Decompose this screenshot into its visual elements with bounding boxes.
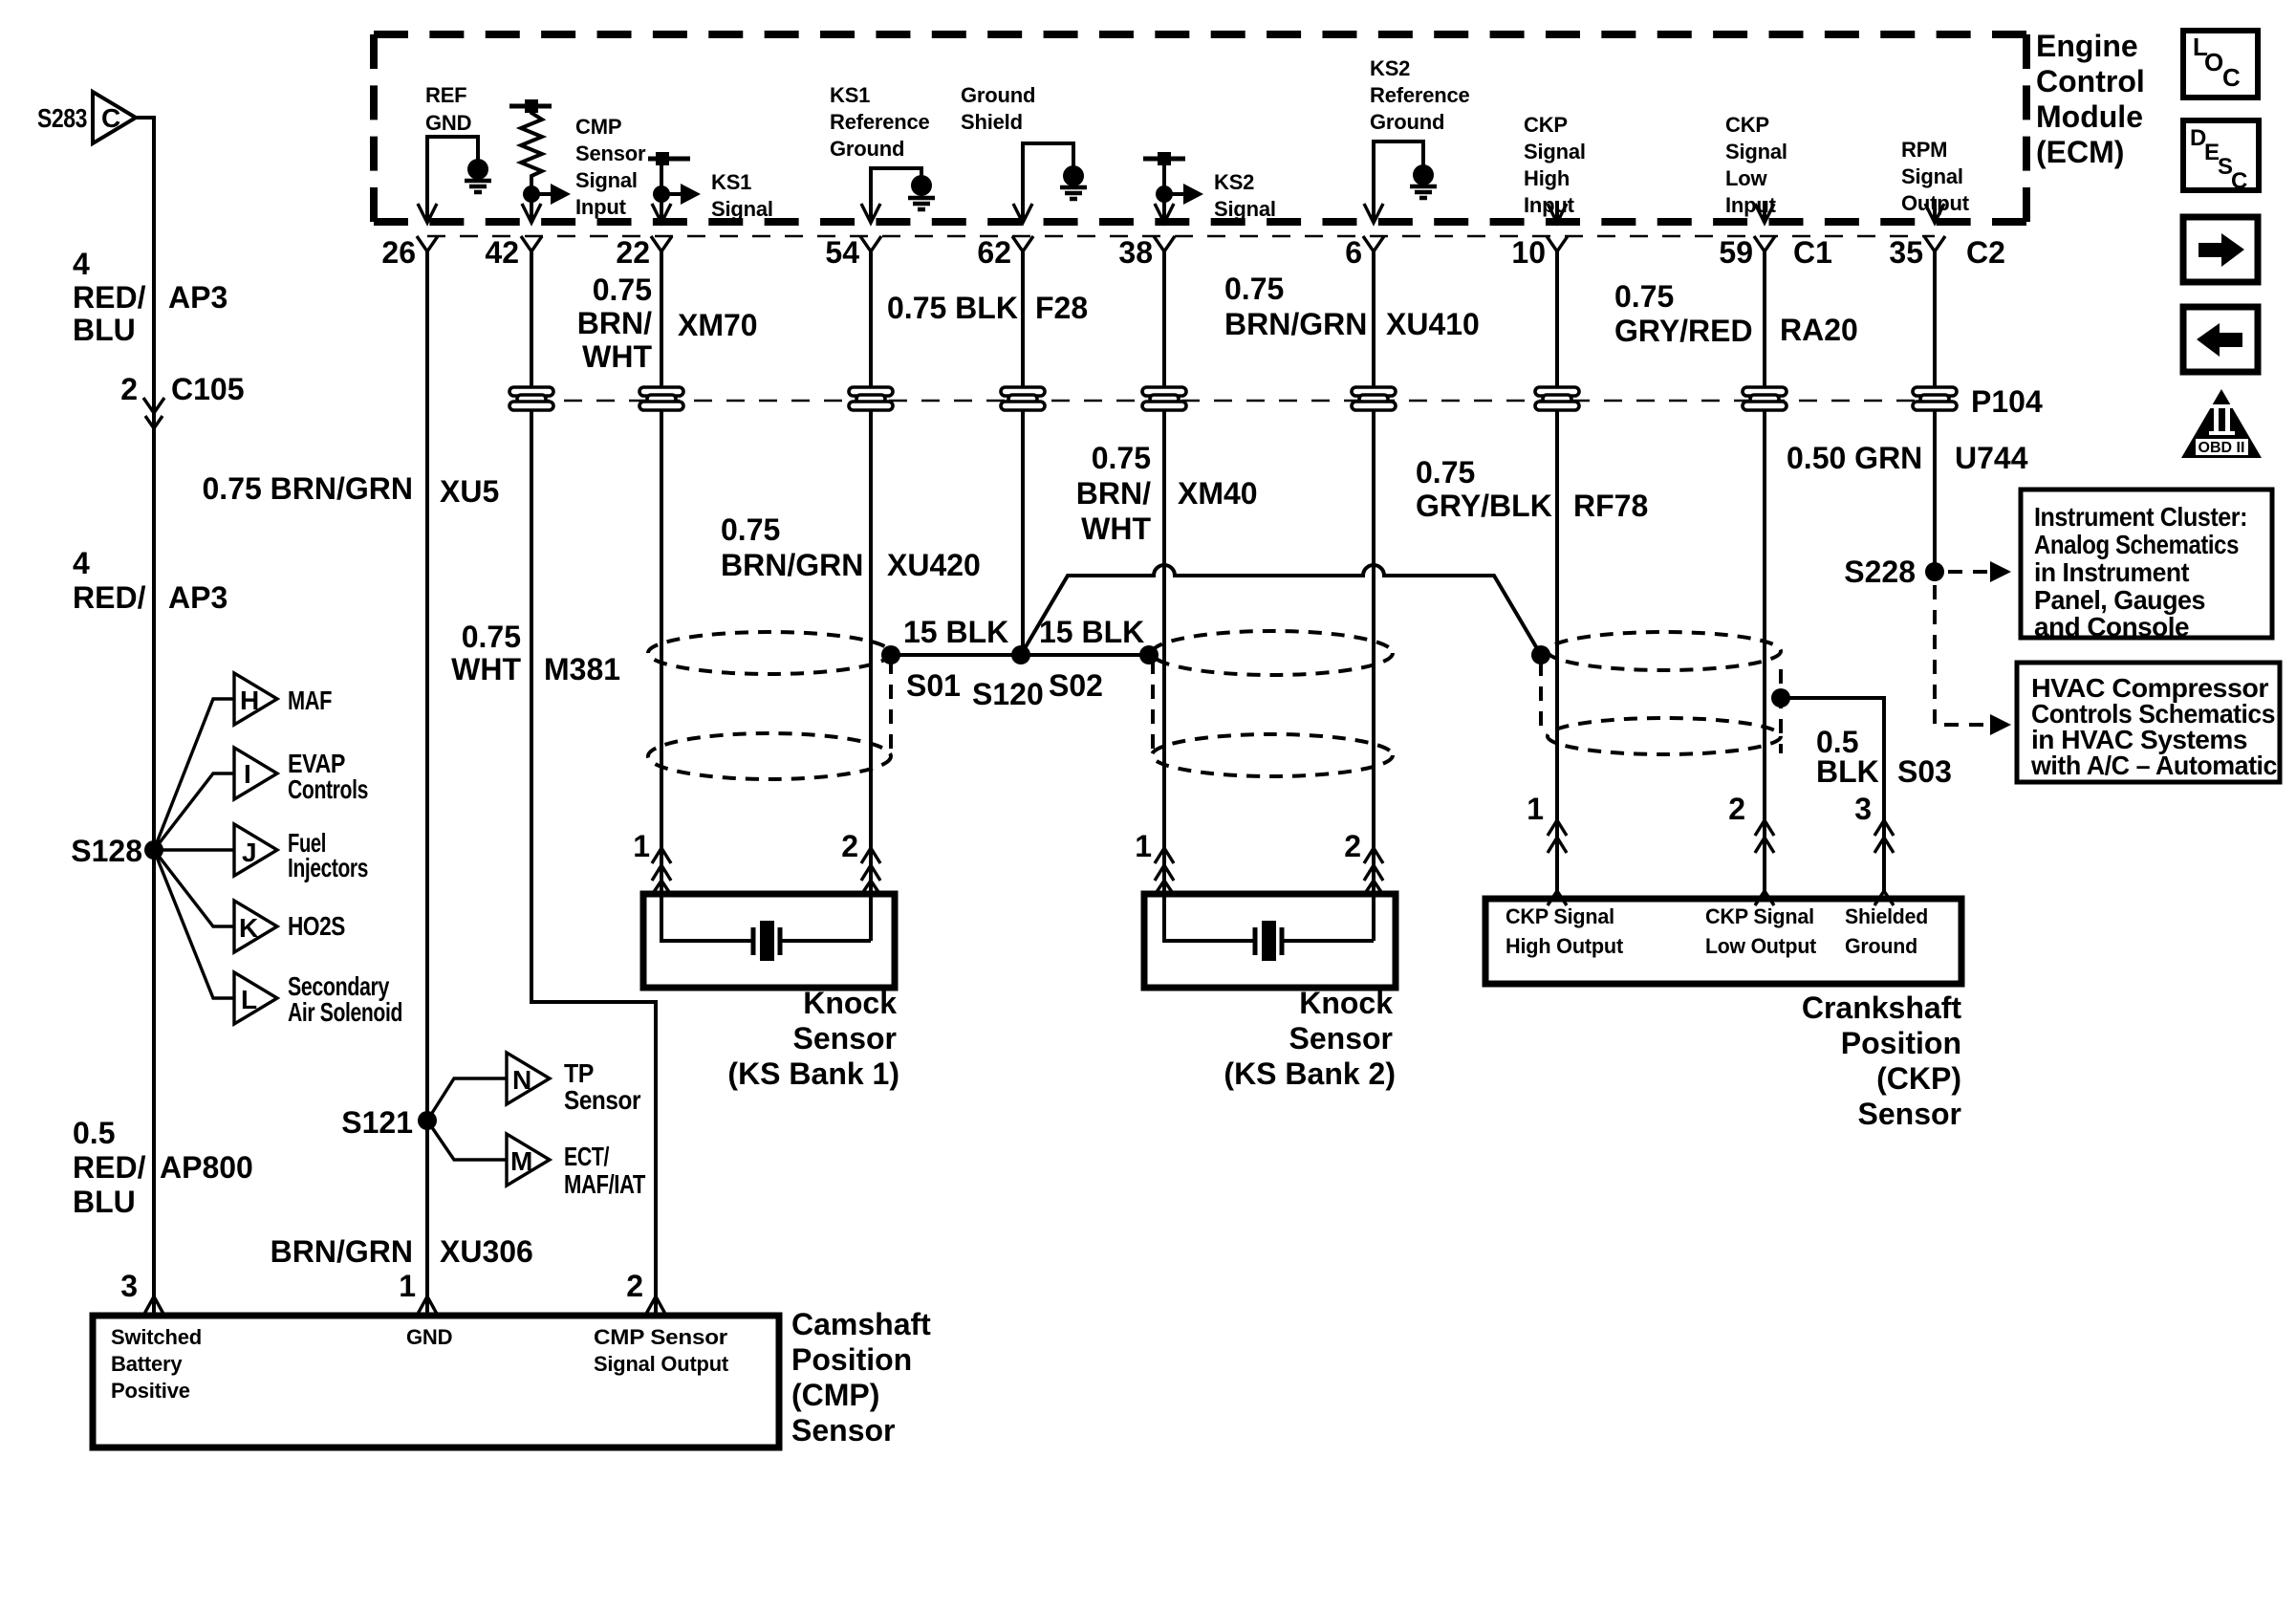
svg-text:0.75: 0.75 (1614, 279, 1674, 314)
dashed wire S228 down to HVAC arrow (1935, 585, 1990, 725)
svg-text:Analog Schematics: Analog Schematics (2034, 530, 2239, 559)
svg-text:(KS Bank 2): (KS Bank 2) (1224, 1056, 1396, 1091)
CKP box pin labels (1505, 904, 1928, 958)
label 4 RED/BLU AP3 (73, 247, 227, 347)
svg-text:GRY/RED: GRY/RED (1614, 314, 1753, 348)
label BRN/GRN XU306 (271, 1234, 533, 1269)
LOC icon (2183, 31, 2258, 98)
ECM pin 6 ground symbol (1410, 164, 1437, 198)
svg-text:CMP Sensor: CMP Sensor (594, 1325, 728, 1349)
svg-text:KS2: KS2 (1370, 56, 1410, 80)
svg-text:High: High (1524, 166, 1570, 190)
svg-text:0.75: 0.75 (462, 620, 521, 654)
ECM pin 38 top bar (1143, 157, 1185, 162)
connector grommet P104 on pin 42 wire (509, 387, 553, 410)
svg-text:0.75: 0.75 (1092, 441, 1151, 475)
svg-text:Low Output: Low Output (1705, 934, 1817, 958)
0.5 BLK S03 labels (1816, 725, 1952, 789)
female connector at ECM pin 54 (860, 236, 881, 251)
svg-text:MAF: MAF (288, 686, 332, 715)
svg-text:Positive: Positive (111, 1379, 190, 1403)
svg-text:0.75: 0.75 (593, 272, 652, 307)
wire pin62 ECM to S120 (1021, 251, 1023, 655)
svg-text:Camshaft: Camshaft (791, 1307, 931, 1341)
svg-text:35: 35 (1889, 235, 1923, 270)
triangle M to ECT/MAF/IAT (507, 1134, 550, 1186)
connector C105 (120, 372, 244, 406)
svg-text:C: C (2231, 168, 2247, 194)
triangle N to TP Sensor (507, 1053, 550, 1104)
svg-text:AP800: AP800 (160, 1150, 253, 1185)
svg-text:CKP Signal: CKP Signal (1705, 904, 1814, 928)
svg-text:Input: Input (575, 195, 627, 219)
svg-text:2: 2 (1344, 829, 1361, 863)
svg-text:WHT: WHT (1081, 512, 1151, 546)
connector grommet P104 on pin 6 wire (1352, 387, 1396, 410)
ECM pin 26 chassis ground symbol (465, 159, 491, 192)
triangle J to Fuel Injectors (234, 824, 277, 876)
svg-text:XU410: XU410 (1386, 307, 1480, 341)
svg-text:2: 2 (626, 1269, 643, 1303)
svg-text:3: 3 (1854, 792, 1872, 826)
svg-text:WHT: WHT (582, 339, 652, 374)
svg-text:CKP: CKP (1725, 113, 1769, 137)
connector line under ECM (thin dashed) (427, 235, 1935, 238)
svg-text:BRN/: BRN/ (1076, 476, 1151, 511)
CKP shield ellipses (1548, 632, 1781, 670)
KS2 piezo crystal element (1164, 894, 1374, 941)
svg-text:Signal: Signal (1901, 164, 1963, 188)
svg-text:2: 2 (120, 372, 138, 406)
node S02 (1139, 645, 1159, 664)
svg-text:J: J (242, 838, 256, 867)
svg-text:C1: C1 (1793, 235, 1832, 270)
svg-text:Ground: Ground (1845, 934, 1917, 958)
svg-text:0.5: 0.5 (73, 1116, 115, 1150)
connector grommet P104 on pin 22 wire (639, 387, 683, 410)
wire pin22 ECM to KS1 pin1 (660, 251, 663, 941)
wire pin54 ECM to KS1 pin2 (869, 251, 873, 941)
svg-text:BRN/GRN: BRN/GRN (1224, 307, 1367, 341)
svg-text:0.75: 0.75 (1224, 272, 1284, 306)
svg-text:54: 54 (825, 235, 859, 270)
ECM pin 10 stub + arrowhead (1555, 201, 1559, 220)
svg-text:HO2S: HO2S (288, 911, 345, 941)
wire pin26 ECM to CMP pin1 (425, 251, 429, 1316)
svg-text:Sensor: Sensor (791, 1413, 895, 1448)
svg-text:Controls: Controls (288, 774, 368, 804)
svg-text:(CMP): (CMP) (791, 1378, 879, 1412)
svg-text:4: 4 (73, 546, 90, 580)
wire label row 1 (203, 272, 2028, 686)
svg-text:BLU: BLU (73, 1185, 136, 1219)
svg-text:Reference: Reference (1370, 83, 1470, 107)
KS1 label (727, 986, 899, 1091)
svg-text:1: 1 (1527, 792, 1544, 826)
svg-text:N: N (512, 1065, 531, 1095)
svg-text:2: 2 (841, 829, 858, 863)
triangle K to HO2S (234, 901, 277, 952)
ECM pin 62 internal bracket (1023, 143, 1073, 220)
svg-text:Signal: Signal (1725, 140, 1787, 163)
svg-text:Shielded: Shielded (1845, 904, 1928, 928)
S03 shielded ground wire 0.5 BLK (1781, 698, 1884, 892)
svg-text:OBD II: OBD II (2199, 440, 2245, 456)
junction dot at CKP shield drain (1531, 645, 1550, 664)
svg-text:Signal: Signal (575, 168, 638, 192)
svg-text:Instrument Cluster:: Instrument Cluster: (2034, 502, 2247, 532)
CMP pin numbers (120, 1269, 643, 1303)
svg-text:Module: Module (2036, 99, 2143, 134)
node S120 (1011, 645, 1030, 664)
ECM pin 42 arrow to CMP Sensor Signal Input (531, 192, 551, 196)
svg-text:C: C (101, 103, 120, 133)
ECM dashed box (Engine Control Module boundary) (374, 34, 2026, 222)
svg-text:(ECM): (ECM) (2036, 135, 2124, 169)
Crankshaft Position CKP Sensor box (1485, 899, 1961, 984)
svg-text:BRN/GRN: BRN/GRN (271, 1234, 413, 1269)
ECM pin 6 internal bracket (1374, 142, 1423, 220)
svg-text:XU420: XU420 (887, 548, 981, 582)
svg-text:H: H (240, 686, 259, 715)
node S01 (881, 645, 900, 664)
ECM pin 42 resistor top bar (509, 104, 552, 109)
triangle H to MAF (234, 673, 277, 725)
svg-text:GND: GND (406, 1325, 452, 1349)
svg-text:KS1: KS1 (830, 83, 870, 107)
ECM pin 6 arrowhead at border (1364, 204, 1383, 223)
double chevron connectors above knock sensors (652, 848, 1383, 895)
ECM pin 26 internal wire bracket (427, 137, 478, 220)
svg-text:Signal: Signal (711, 197, 773, 221)
connector grommet P104 on pin 59 wire (1743, 387, 1787, 410)
KS2 shield drain dashed (1151, 660, 1155, 752)
ECM pin 22 junction dot (653, 185, 670, 203)
wire pin6 ECM to KS2 pin2 (1372, 251, 1375, 941)
svg-text:Injectors: Injectors (288, 853, 368, 882)
svg-text:AP3: AP3 (168, 280, 227, 315)
svg-text:XU5: XU5 (440, 474, 499, 509)
svg-text:Battery: Battery (111, 1352, 183, 1376)
svg-text:XM70: XM70 (678, 308, 758, 342)
KS1 shield ellipses (648, 632, 891, 674)
svg-text:Knock: Knock (803, 986, 897, 1020)
triangle I to EVAP Controls (234, 748, 277, 799)
KS2 Reference Ground label (1370, 56, 1470, 134)
svg-text:WHT: WHT (451, 652, 521, 686)
female connector at ECM pin 62 (1012, 236, 1033, 251)
svg-text:High Output: High Output (1505, 934, 1624, 958)
svg-text:U744: U744 (1955, 441, 2028, 475)
connector grommet P104 on pin 62 wire (1001, 387, 1045, 410)
svg-text:6: 6 (1345, 235, 1362, 270)
Instrument Cluster reference box (2021, 490, 2272, 638)
svg-text:38: 38 (1118, 235, 1153, 270)
ECM pin 59 stub + arrowhead (1763, 201, 1766, 220)
ECM pin 42 pull-up resistor (521, 106, 542, 187)
svg-text:KS1: KS1 (711, 170, 751, 194)
ECM pin 22 arrowhead at border (652, 204, 671, 223)
svg-text:L: L (241, 985, 257, 1014)
svg-text:Signal: Signal (1214, 197, 1276, 221)
svg-text:4: 4 (73, 247, 90, 281)
ECM pin 22 arrow to KS1 Signal (661, 192, 681, 196)
ECM pin 62 ground symbol (1060, 165, 1087, 199)
connector grommet P104 on pin 38 wire (1142, 387, 1186, 410)
sensor-side pin numbers (633, 792, 1872, 863)
KS1 Reference Ground label (830, 83, 930, 161)
KS1 shield drain dashed (889, 660, 893, 753)
svg-text:0.75: 0.75 (721, 512, 780, 547)
CKP label (1802, 991, 1962, 1131)
svg-text:ECT/: ECT/ (564, 1142, 610, 1171)
ECM pin 38 arrow to KS2 Signal (1164, 192, 1183, 196)
wire pin59 ECM to CKP pin2 (1763, 251, 1766, 899)
svg-text:RA20: RA20 (1780, 313, 1858, 347)
svg-text:Ground: Ground (1370, 110, 1444, 134)
female connector at ECM pin 22 (651, 236, 672, 251)
svg-text:Reference: Reference (830, 110, 930, 134)
female connector at ECM pin 26 (417, 236, 438, 251)
connector grommet P104 on pin 10 wire (1535, 387, 1579, 410)
svg-text:0.75 BLK: 0.75 BLK (887, 291, 1018, 325)
ECM pin 26 arrowhead at border (418, 204, 437, 223)
svg-text:Panel, Gauges: Panel, Gauges (2034, 585, 2205, 615)
svg-text:S283: S283 (37, 103, 87, 133)
svg-text:Engine: Engine (2036, 29, 2138, 63)
svg-text:26: 26 (381, 235, 416, 270)
Knock Sensor KS Bank 2 box (1144, 894, 1396, 988)
svg-text:Ground: Ground (830, 137, 904, 161)
svg-text:CKP Signal: CKP Signal (1505, 904, 1614, 928)
svg-text:with A/C – Automatic: with A/C – Automatic (2030, 751, 2277, 780)
svg-text:2: 2 (1728, 792, 1745, 826)
svg-text:Position: Position (791, 1342, 912, 1377)
svg-text:Signal: Signal (1524, 140, 1586, 163)
triangle L to Secondary Air Solenoid (234, 972, 277, 1024)
ECM pin 62 arrowhead at border (1013, 204, 1032, 223)
female connector at ECM pin 6 (1363, 236, 1384, 251)
back arrow icon (2183, 307, 2258, 372)
female connector at ECM pin 42 (521, 236, 542, 251)
forward arrow icon (2183, 217, 2258, 282)
ECM pin numbers (381, 235, 2005, 270)
svg-text:REF: REF (425, 83, 466, 107)
svg-text:RPM: RPM (1901, 138, 1947, 162)
svg-text:P104: P104 (1971, 384, 2043, 419)
svg-text:15 BLK: 15 BLK (903, 615, 1008, 649)
svg-text:MAF/IAT: MAF/IAT (564, 1169, 645, 1199)
KS2 Signal label (1214, 170, 1276, 221)
svg-text:Air Solenoid: Air Solenoid (288, 997, 402, 1027)
svg-text:M: M (510, 1146, 532, 1176)
svg-text:S02: S02 (1049, 668, 1103, 703)
shield wire from S120 to CKP shield (hops over KS2 wires) (1021, 565, 1541, 655)
svg-text:in Instrument: in Instrument (2034, 557, 2189, 587)
svg-text:0.50 GRN: 0.50 GRN (1787, 441, 1922, 475)
svg-text:0.75 BRN/GRN: 0.75 BRN/GRN (203, 471, 414, 506)
female connector at ECM pin 59 (1754, 236, 1775, 251)
svg-text:GND: GND (425, 111, 471, 135)
KS2 shield ellipses (1152, 631, 1393, 675)
connector grommet P104 on pin 54 wire (849, 387, 893, 410)
CKP shield drain dashed left (1539, 662, 1543, 734)
svg-text:0.75: 0.75 (1416, 455, 1475, 490)
ECM pin 42 arrowhead at border (522, 204, 541, 223)
svg-text:Position: Position (1841, 1026, 1961, 1060)
svg-text:BRN/: BRN/ (577, 306, 652, 340)
CKP Signal High Input label (1524, 113, 1586, 217)
ECM pin 38 arrowhead at border (1155, 204, 1174, 223)
ECM pin 38 junction dot (1156, 185, 1173, 203)
connector grommet P104 on pin 35 wire (1913, 387, 1957, 410)
svg-text:1: 1 (1135, 829, 1152, 863)
svg-text:K: K (239, 913, 258, 943)
svg-text:1: 1 (399, 1269, 416, 1303)
S121 fan wires (427, 1078, 507, 1160)
svg-text:XM40: XM40 (1178, 476, 1258, 511)
svg-text:Switched: Switched (111, 1325, 202, 1349)
svg-text:Control: Control (2036, 64, 2145, 98)
svg-text:Shield: Shield (961, 110, 1023, 134)
svg-text:I: I (244, 759, 250, 789)
dashed arrow S228 to Instrument Cluster (1948, 570, 1990, 574)
svg-text:RED/: RED/ (73, 580, 146, 615)
S128 fan wires (154, 699, 234, 998)
svg-text:F28: F28 (1035, 291, 1088, 325)
Knock Sensor KS Bank 1 box (643, 894, 895, 988)
wire pin38 ECM to KS2 pin1 (1162, 251, 1166, 941)
ECM pin 26 REF GND label (425, 83, 471, 135)
svg-text:C105: C105 (171, 372, 245, 406)
svg-text:BLU: BLU (73, 313, 136, 347)
svg-text:RED/: RED/ (73, 1150, 146, 1185)
svg-text:S01: S01 (906, 668, 961, 703)
svg-text:CKP: CKP (1524, 113, 1568, 137)
svg-text:Ground: Ground (961, 83, 1035, 107)
female connector at ECM pin 38 (1154, 236, 1175, 251)
ECM pin 54 internal bracket (871, 168, 921, 220)
Camshaft Position CMP Sensor box (93, 1316, 779, 1448)
CMP label (791, 1307, 931, 1448)
P104 harness pass-through dashed line (531, 400, 1935, 403)
ECM pin 35 stub + arrowhead (1933, 201, 1937, 220)
svg-text:Sensor: Sensor (1858, 1097, 1961, 1131)
CMP Sensor Signal Input label (575, 115, 646, 219)
svg-text:S120: S120 (972, 677, 1044, 711)
svg-text:RED/: RED/ (73, 280, 146, 315)
svg-text:Low: Low (1725, 166, 1767, 190)
node on CKP right drain (S03 takeoff) (1771, 688, 1790, 708)
ECM title text (2036, 29, 2145, 169)
svg-text:KS2: KS2 (1214, 170, 1254, 194)
wire pin35 ECM to S228 (1933, 251, 1937, 572)
svg-text:and Console: and Console (2034, 612, 2189, 642)
female connector V symbols below ECM (417, 236, 1945, 251)
svg-text:GRY/BLK: GRY/BLK (1416, 489, 1552, 523)
svg-text:C2: C2 (1966, 235, 2005, 270)
ECM pin 22 top bar (648, 157, 690, 162)
wire pin10 ECM to CKP pin1 (1555, 251, 1559, 899)
wire S283 down to CMP pin3 (136, 118, 154, 1316)
svg-text:Knock: Knock (1299, 986, 1393, 1020)
wire pin42 ECM to CMP pin2 (531, 251, 656, 1316)
label 4 RED/ AP3 (lower) (73, 546, 227, 615)
node S228 on RPM wire (1925, 562, 1944, 581)
Ground Shield label (961, 83, 1035, 134)
KS2 label (1224, 986, 1396, 1091)
svg-text:BRN/GRN: BRN/GRN (721, 548, 863, 582)
CKP Signal Low Input label (1725, 113, 1787, 217)
HVAC Compressor reference box (2017, 663, 2280, 782)
svg-text:62: 62 (977, 235, 1011, 270)
svg-text:RF78: RF78 (1573, 489, 1648, 523)
svg-text:S128: S128 (71, 834, 142, 868)
svg-text:BLK: BLK (1816, 754, 1879, 789)
svg-text:22: 22 (616, 235, 650, 270)
double chevron connectors above CKP sensor (1548, 820, 1894, 905)
DESC icon (2183, 120, 2259, 190)
svg-text:3: 3 (120, 1269, 138, 1303)
svg-text:10: 10 (1511, 235, 1546, 270)
svg-text:C: C (2222, 63, 2241, 92)
shield bus 15 BLK S01-S120-S02 (891, 653, 1149, 657)
RPM Signal Output label (1901, 138, 1970, 215)
KS1 piezo crystal element (661, 894, 871, 941)
svg-text:TP: TP (564, 1058, 594, 1088)
svg-text:AP3: AP3 (168, 580, 227, 615)
svg-text:Sensor: Sensor (564, 1085, 641, 1115)
svg-text:15 BLK: 15 BLK (1039, 615, 1144, 649)
svg-text:Crankshaft: Crankshaft (1802, 991, 1962, 1025)
svg-text:59: 59 (1719, 235, 1753, 270)
CKP shield drain dashed right (1779, 669, 1783, 753)
svg-text:S228: S228 (1844, 555, 1916, 589)
bus labels (903, 615, 1144, 711)
svg-text:CMP: CMP (575, 115, 621, 139)
ECM pin 54 ground symbol (908, 175, 935, 209)
chevrons into CMP box (143, 1296, 666, 1316)
svg-text:Signal Output: Signal Output (594, 1352, 729, 1376)
svg-text:Sensor: Sensor (1289, 1021, 1393, 1056)
ECM pin 42 junction dot (523, 185, 540, 203)
svg-text:Sensor: Sensor (793, 1021, 897, 1056)
female connector at ECM pin 10 (1547, 236, 1568, 251)
ECM pin 54 arrowhead at border (861, 204, 880, 223)
svg-text:M381: M381 (544, 652, 620, 686)
svg-text:1: 1 (633, 829, 650, 863)
svg-text:(CKP): (CKP) (1876, 1061, 1961, 1096)
female connector at ECM pin 35 (1924, 236, 1945, 251)
KS1 Signal label (711, 170, 773, 221)
svg-text:O: O (2204, 48, 2223, 76)
svg-text:XU306: XU306 (440, 1234, 533, 1269)
svg-text:S121: S121 (341, 1105, 413, 1140)
svg-text:(KS Bank 1): (KS Bank 1) (727, 1056, 899, 1091)
label 0.5 RED/BLU AP800 (73, 1116, 253, 1219)
svg-text:42: 42 (485, 235, 519, 270)
svg-text:Sensor: Sensor (575, 142, 646, 165)
svg-text:S03: S03 (1897, 754, 1952, 789)
OBD II icon (2181, 389, 2262, 458)
